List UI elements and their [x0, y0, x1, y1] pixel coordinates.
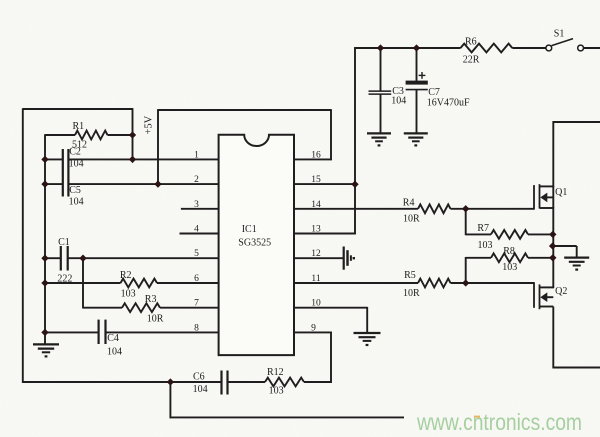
svg-text:11: 11	[311, 274, 320, 284]
svg-text:C7: C7	[428, 87, 440, 98]
svg-text:2: 2	[194, 175, 199, 185]
svg-text:R4: R4	[403, 197, 415, 208]
svg-text:R7: R7	[477, 223, 489, 234]
svg-text:6: 6	[194, 274, 199, 284]
svg-text:14: 14	[311, 200, 321, 210]
svg-text:104: 104	[69, 196, 84, 207]
svg-text:10R: 10R	[403, 288, 420, 299]
svg-text:104: 104	[107, 346, 122, 357]
svg-text:IC1: IC1	[242, 224, 257, 235]
svg-text:7: 7	[194, 299, 199, 309]
svg-text:16V470uF: 16V470uF	[427, 98, 470, 109]
svg-text:C2: C2	[69, 147, 81, 158]
svg-text:C5: C5	[69, 185, 81, 196]
svg-text:15: 15	[311, 175, 321, 185]
svg-text:10R: 10R	[403, 214, 420, 225]
svg-text:3: 3	[194, 200, 199, 210]
svg-text:13: 13	[311, 225, 321, 235]
svg-text:1: 1	[194, 150, 199, 160]
svg-text:103: 103	[121, 289, 136, 300]
svg-text:104: 104	[69, 159, 84, 170]
svg-text:10: 10	[311, 299, 321, 309]
svg-text:8: 8	[194, 323, 199, 333]
svg-text:103: 103	[478, 240, 493, 251]
svg-text:R6: R6	[465, 36, 477, 47]
svg-text:R5: R5	[404, 270, 416, 281]
svg-text:103: 103	[502, 262, 517, 273]
svg-text:S1: S1	[554, 28, 565, 39]
svg-text:R1: R1	[73, 121, 85, 132]
svg-text:R12: R12	[267, 367, 284, 378]
svg-text:Q2: Q2	[555, 286, 567, 297]
svg-text:R2: R2	[120, 270, 132, 281]
svg-text:16: 16	[311, 150, 321, 160]
svg-text:4: 4	[194, 225, 199, 235]
svg-text:R8: R8	[503, 246, 515, 257]
svg-text:22R: 22R	[463, 54, 480, 65]
svg-text:5: 5	[194, 249, 199, 259]
svg-text:103: 103	[269, 385, 284, 396]
svg-text:C6: C6	[193, 372, 205, 383]
svg-text:104: 104	[193, 384, 208, 395]
svg-text:12: 12	[311, 249, 321, 259]
svg-text:www.cntronics.com: www.cntronics.com	[416, 409, 582, 435]
svg-text:104: 104	[391, 95, 406, 106]
svg-text:9: 9	[311, 323, 316, 333]
svg-text:222: 222	[57, 274, 72, 285]
svg-text:C4: C4	[107, 333, 119, 344]
svg-text:SG3525: SG3525	[238, 238, 271, 249]
svg-text:R3: R3	[145, 294, 157, 305]
svg-text:10R: 10R	[147, 314, 164, 325]
svg-text:+5V: +5V	[144, 115, 155, 134]
svg-text:C1: C1	[58, 237, 70, 248]
svg-text:Q1: Q1	[555, 187, 567, 198]
